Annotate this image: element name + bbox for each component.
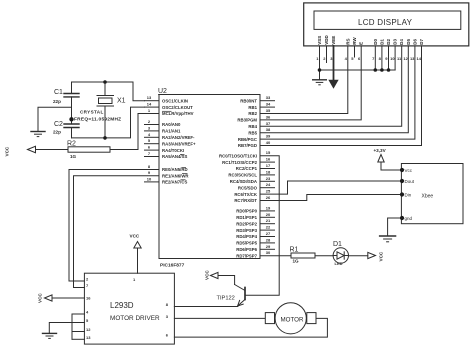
wire VCC to L293D pin16 bbox=[52, 297, 84, 299]
svg-text:13: 13 bbox=[147, 95, 152, 100]
PIC right pin names bbox=[219, 98, 258, 258]
svg-text:MCLR/Vpp/THV: MCLR/Vpp/THV bbox=[162, 111, 194, 116]
svg-text:40: 40 bbox=[266, 140, 271, 145]
transistor Q1 TIP122 collector path bbox=[218, 276, 235, 285]
svg-text:RB2: RB2 bbox=[248, 111, 257, 116]
U2 right pin numbers bbox=[266, 95, 271, 255]
power VCC arrow (LED) bbox=[368, 252, 376, 258]
L293D pin 12 stub bbox=[72, 331, 84, 333]
LCD VSS stub bbox=[319, 46, 321, 80]
svg-text:16: 16 bbox=[86, 296, 91, 301]
wire RE0 to L293D IN1 bbox=[69, 170, 159, 282]
svg-text:RB4: RB4 bbox=[248, 124, 257, 129]
svg-text:15: 15 bbox=[266, 150, 271, 155]
L293D pin numbers bbox=[86, 277, 169, 340]
svg-text:RA5/AN4/SS: RA5/AN4/SS bbox=[162, 154, 187, 159]
wire emitter to L293D pin8 bbox=[174, 306, 237, 308]
wire crystal top lead bbox=[104, 82, 106, 96]
wire RC7 to Xbee Din bbox=[260, 195, 401, 201]
svg-text:RC3/SCK/SCL: RC3/SCK/SCL bbox=[228, 173, 257, 178]
svg-text:10: 10 bbox=[147, 176, 152, 181]
svg-text:38: 38 bbox=[266, 127, 271, 132]
wire L293D pin6 to motor loop bbox=[174, 318, 327, 337]
crystal X1 bottom plate bbox=[97, 105, 114, 107]
wire C1 top lead bbox=[71, 82, 73, 94]
svg-text:D2: D2 bbox=[386, 39, 391, 45]
svg-text:RS: RS bbox=[345, 39, 350, 45]
svg-text:18: 18 bbox=[266, 169, 271, 174]
svg-text:RA1/AN1: RA1/AN1 bbox=[162, 129, 181, 134]
pin 5 stub RA3 bbox=[145, 143, 160, 145]
svg-text:VCC: VCC bbox=[38, 293, 43, 303]
svg-text:D7: D7 bbox=[419, 39, 424, 45]
wire RC6 to Xbee Dout bbox=[260, 181, 401, 194]
pin 19 stub RD0 bbox=[260, 210, 275, 212]
Xbee pin dot Dout bbox=[400, 179, 404, 183]
svg-text:30: 30 bbox=[266, 250, 271, 255]
wire C2 bottom lead bbox=[71, 128, 73, 138]
LCD display inner box bbox=[314, 11, 461, 29]
svg-text:RA2/AN2/VREF-: RA2/AN2/VREF- bbox=[162, 135, 195, 140]
svg-text:10: 10 bbox=[390, 56, 395, 61]
node caps mid bbox=[69, 117, 73, 121]
svg-text:D5: D5 bbox=[406, 39, 411, 45]
svg-text:RD0/PSP0: RD0/PSP0 bbox=[236, 209, 257, 214]
svg-text:RC6/TX/CK: RC6/TX/CK bbox=[234, 192, 258, 197]
svg-text:OSC2/CLKOUT: OSC2/CLKOUT bbox=[162, 105, 193, 110]
wire C1-C2 link bbox=[71, 97, 73, 124]
power VCC arrow (R2) bbox=[28, 146, 36, 152]
U2 left pin numbers bbox=[147, 95, 152, 181]
wire R2 to MCLR bbox=[110, 114, 145, 150]
svg-text:22p: 22p bbox=[53, 99, 61, 104]
ground (L293D) bbox=[43, 332, 57, 334]
svg-text:RA3/AN3/VREF+: RA3/AN3/VREF+ bbox=[162, 141, 196, 146]
LCD D3 stub bbox=[394, 46, 396, 70]
svg-text:VSS: VSS bbox=[317, 36, 322, 45]
svg-text:RA0/AN0: RA0/AN0 bbox=[162, 122, 181, 127]
svg-text:Dout: Dout bbox=[405, 179, 415, 184]
pin 1 stub bbox=[145, 113, 160, 115]
svg-text:35: 35 bbox=[266, 108, 271, 113]
Xbee module body bbox=[401, 164, 463, 224]
power VCC arrow (L293D pin1) bbox=[134, 242, 141, 249]
svg-text:14: 14 bbox=[147, 102, 152, 107]
pin 22 stub RD3 bbox=[260, 229, 275, 231]
power down arrow (VEE) bbox=[329, 80, 338, 88]
LCD pin numbers bbox=[316, 56, 422, 61]
svg-text:MOTOR: MOTOR bbox=[281, 317, 304, 324]
svg-text:RB5: RB5 bbox=[248, 130, 257, 135]
wire RE1 to L293D IN2 bbox=[74, 176, 160, 288]
svg-text:22: 22 bbox=[266, 225, 271, 230]
svg-text:13: 13 bbox=[410, 56, 415, 61]
wire L293D pin1 VCC bbox=[137, 248, 139, 273]
wire RB2 to LCD RS bbox=[260, 46, 348, 114]
node LCD VSS tie bbox=[318, 68, 322, 72]
microcontroller U2 body bbox=[159, 95, 260, 259]
svg-text:C2: C2 bbox=[54, 121, 63, 128]
crystal X1 box bbox=[99, 98, 113, 104]
svg-text:D6: D6 bbox=[412, 39, 417, 45]
svg-text:22p: 22p bbox=[53, 129, 61, 134]
svg-text:1G: 1G bbox=[293, 259, 300, 264]
transistor Q1 collector diagonal bbox=[235, 285, 245, 291]
transistor Q1 emitter arrowhead bbox=[238, 300, 244, 306]
svg-text:D3: D3 bbox=[393, 39, 398, 45]
pin 24 stub RC5 bbox=[260, 187, 275, 189]
motor right terminal bbox=[307, 313, 316, 324]
pin 21 stub RD2 bbox=[260, 223, 275, 225]
pin 20 stub RD1 bbox=[260, 216, 275, 218]
svg-text:13: 13 bbox=[86, 335, 91, 340]
svg-text:gnd: gnd bbox=[405, 216, 413, 221]
pin 18 stub RC3 bbox=[260, 174, 275, 176]
svg-text:RD1/PSP1: RD1/PSP1 bbox=[236, 215, 257, 220]
resistor R2 body bbox=[68, 147, 110, 152]
L293D ground bus wire bbox=[71, 314, 73, 339]
pin 6 stub RA4 bbox=[145, 149, 160, 151]
Xbee pin dot Din bbox=[400, 192, 404, 196]
LCD D1 stub bbox=[381, 46, 383, 70]
svg-text:21: 21 bbox=[266, 218, 271, 223]
pin 4 stub RA2 bbox=[145, 136, 160, 138]
svg-text:PIC16F877: PIC16F877 bbox=[160, 263, 185, 269]
pin 10 stub RE2 bbox=[145, 181, 160, 183]
svg-text:VEE: VEE bbox=[331, 36, 336, 45]
wire VCC to R2 bbox=[36, 149, 69, 151]
svg-text:RE1/AN6/WR: RE1/AN6/WR bbox=[162, 173, 189, 178]
motor M1 circle bbox=[275, 303, 306, 334]
svg-text:33: 33 bbox=[266, 95, 271, 100]
svg-text:24: 24 bbox=[266, 182, 271, 187]
svg-text:RB1: RB1 bbox=[248, 105, 257, 110]
pin 23 stub RC4 bbox=[260, 180, 275, 182]
svg-text:RC4/SDI/SDA: RC4/SDI/SDA bbox=[230, 179, 257, 184]
wire R1 to LED bbox=[315, 255, 333, 257]
svg-text:RD7/PSP7: RD7/PSP7 bbox=[236, 253, 257, 258]
svg-text:C1: C1 bbox=[54, 89, 63, 96]
svg-text:E: E bbox=[359, 42, 364, 45]
svg-text:RB0/INT: RB0/INT bbox=[240, 98, 257, 103]
pin 3 stub RA1 bbox=[145, 130, 160, 132]
svg-text:Vcc: Vcc bbox=[405, 168, 413, 173]
wire RB7 to LCD D7 bbox=[260, 46, 422, 146]
resistor R1 body bbox=[291, 253, 315, 258]
svg-text:RC2/CCP1: RC2/CCP1 bbox=[236, 166, 258, 171]
pin 7 stub RA5 bbox=[145, 156, 160, 158]
ground (crystal caps) bbox=[31, 131, 45, 133]
LED D1 diode bbox=[337, 252, 344, 259]
svg-text:Din: Din bbox=[405, 193, 412, 198]
svg-text:RD4/PSP4: RD4/PSP4 bbox=[236, 234, 257, 239]
svg-text:12: 12 bbox=[403, 56, 408, 61]
svg-text:VCC: VCC bbox=[130, 234, 140, 239]
wire RB6 to LCD D6 bbox=[260, 46, 415, 139]
svg-text:39: 39 bbox=[266, 134, 271, 139]
svg-text:D0: D0 bbox=[373, 39, 378, 45]
Xbee pin dot Vcc bbox=[400, 168, 404, 172]
svg-text:+3,3V: +3,3V bbox=[374, 148, 387, 153]
wire RB4 to LCD D4 bbox=[260, 46, 402, 126]
PIC left pin names bbox=[162, 98, 196, 184]
L293D pin 5 stub bbox=[72, 322, 84, 324]
svg-text:VCC: VCC bbox=[379, 251, 384, 261]
LCD VEE power line bbox=[333, 46, 335, 80]
svg-text:19: 19 bbox=[266, 205, 271, 210]
Xbee pin dot gnd bbox=[400, 216, 404, 220]
pin 28 stub RD5 bbox=[260, 242, 275, 244]
pin 27 stub RD4 bbox=[260, 236, 275, 238]
svg-text:27: 27 bbox=[266, 231, 271, 236]
node D0 bbox=[374, 68, 378, 72]
svg-text:TIP122: TIP122 bbox=[217, 296, 235, 302]
ground (Xbee) bbox=[380, 235, 396, 237]
svg-text:29: 29 bbox=[266, 244, 271, 249]
svg-text:RE0/AN5/RD: RE0/AN5/RD bbox=[162, 167, 188, 172]
svg-text:RC1/T1OSI/CCP2: RC1/T1OSI/CCP2 bbox=[222, 160, 257, 165]
L293D motor driver body bbox=[84, 273, 174, 344]
node crystal top bbox=[103, 80, 107, 84]
svg-text:R2: R2 bbox=[67, 141, 76, 148]
crystal X1 top plate bbox=[97, 95, 114, 97]
pin-name overlines bbox=[162, 111, 188, 180]
svg-text:CRYSTAL: CRYSTAL bbox=[80, 110, 104, 115]
wire crystal bottom lead bbox=[104, 106, 106, 138]
svg-text:RC5/SDO: RC5/SDO bbox=[238, 185, 258, 190]
svg-text:RC0/T1OSO/T1CKI: RC0/T1OSO/T1CKI bbox=[219, 153, 257, 158]
pin 29 stub RD6 bbox=[260, 248, 275, 250]
svg-text:25: 25 bbox=[266, 189, 271, 194]
svg-text:X1: X1 bbox=[117, 98, 126, 105]
svg-text:D4: D4 bbox=[399, 39, 404, 45]
svg-text:36: 36 bbox=[266, 114, 271, 119]
capacitor C1 plates bbox=[64, 93, 79, 95]
pin 2 stub RA0 bbox=[145, 124, 160, 126]
wire RD7 to R1 bbox=[260, 255, 291, 257]
ground (LCD VSS) bbox=[313, 79, 327, 81]
svg-text:RD3/PSP3: RD3/PSP3 bbox=[236, 228, 257, 233]
svg-text:Xbee: Xbee bbox=[422, 194, 434, 200]
transistor Q1 emitter diagonal bbox=[238, 300, 245, 306]
svg-text:LCD DISPLAY: LCD DISPLAY bbox=[358, 18, 413, 27]
svg-text:RB3/PGM: RB3/PGM bbox=[237, 118, 257, 123]
svg-text:12: 12 bbox=[86, 327, 91, 332]
power +3.3V arrow bbox=[378, 155, 384, 163]
svg-text:23: 23 bbox=[266, 176, 271, 181]
svg-text:D1: D1 bbox=[379, 39, 384, 45]
LCD display outer box bbox=[304, 3, 469, 46]
transistor Q1 base bar bbox=[244, 288, 246, 300]
svg-text:26: 26 bbox=[266, 195, 271, 200]
svg-text:LED: LED bbox=[335, 261, 343, 266]
LCD VDD stub bbox=[326, 46, 328, 63]
svg-text:VDD: VDD bbox=[324, 35, 329, 45]
node crystal bottom bbox=[103, 136, 107, 140]
svg-text:VCC: VCC bbox=[5, 146, 10, 156]
L293D pin 4 stub bbox=[72, 313, 84, 315]
wire RB3 to LCD E bbox=[260, 46, 361, 120]
wire LED to VCC bbox=[348, 255, 367, 257]
power VCC arrow (L293D pin16) bbox=[45, 295, 53, 301]
svg-text:RC7/RX/DT: RC7/RX/DT bbox=[234, 198, 257, 203]
wire RC0 to TIP122 base bbox=[245, 156, 279, 296]
node D1 bbox=[380, 68, 384, 72]
svg-text:34: 34 bbox=[266, 102, 271, 107]
LCD RW stub bbox=[354, 46, 356, 57]
svg-text:RW: RW bbox=[352, 37, 357, 45]
svg-text:RD6/PSP6: RD6/PSP6 bbox=[236, 247, 257, 252]
svg-text:D1: D1 bbox=[333, 241, 342, 248]
svg-text:14: 14 bbox=[417, 56, 422, 61]
capacitor C2 plates bbox=[64, 123, 79, 125]
svg-text:17: 17 bbox=[266, 163, 271, 168]
wire OSC1 top loop bbox=[72, 82, 145, 101]
wire bus to ground bbox=[49, 323, 72, 334]
wire +3.3V to Xbee Vcc bbox=[381, 162, 401, 170]
LCD pin labels rotated bbox=[317, 35, 424, 45]
L293D pin 13 stub bbox=[72, 338, 84, 340]
svg-text:L293D: L293D bbox=[110, 301, 134, 310]
svg-text:RB6/PGC: RB6/PGC bbox=[238, 137, 257, 142]
wire RB5 to LCD D5 bbox=[260, 46, 408, 133]
motor left terminal bbox=[265, 313, 274, 324]
wire caps to ground bbox=[38, 107, 72, 131]
svg-text:RA4/T0CKI: RA4/T0CKI bbox=[162, 148, 184, 153]
svg-text:16: 16 bbox=[266, 157, 271, 162]
svg-text:37: 37 bbox=[266, 121, 271, 126]
svg-text:FREQ=11.0592MHZ: FREQ=11.0592MHZ bbox=[74, 117, 121, 123]
svg-text:U2: U2 bbox=[158, 88, 167, 95]
wire Xbee gnd bbox=[388, 218, 402, 236]
svg-text:RD5/PSP5: RD5/PSP5 bbox=[236, 241, 257, 246]
svg-text:OSC1/CLKIN: OSC1/CLKIN bbox=[162, 98, 188, 103]
svg-text:VCC: VCC bbox=[205, 270, 210, 280]
pin 13 stub bbox=[145, 100, 160, 102]
LCD D0 stub bbox=[374, 46, 376, 70]
pin 17 stub RC2 bbox=[260, 168, 275, 170]
power VCC arrow (TIP122) bbox=[211, 272, 219, 278]
wire VSS tie to D0-D3 bbox=[320, 69, 396, 71]
LCD D2 stub bbox=[388, 46, 390, 70]
svg-text:RD2/PSP2: RD2/PSP2 bbox=[236, 221, 257, 226]
pin 16 stub RC1 bbox=[260, 161, 275, 163]
wire OSC2 bottom loop bbox=[72, 107, 145, 138]
wire L293D pin3 to motor bbox=[174, 317, 265, 319]
svg-text:28: 28 bbox=[266, 237, 271, 242]
node D2 bbox=[387, 68, 391, 72]
pin 34 stub RB1 bbox=[260, 106, 275, 108]
svg-text:20: 20 bbox=[266, 212, 271, 217]
pin 14 stub bbox=[145, 106, 160, 108]
svg-text:RB7/PGD: RB7/PGD bbox=[238, 143, 257, 148]
LED D1 circle bbox=[333, 248, 348, 263]
svg-text:1G: 1G bbox=[70, 154, 77, 159]
svg-text:R1: R1 bbox=[290, 246, 299, 253]
svg-text:MOTOR DRIVER: MOTOR DRIVER bbox=[110, 315, 160, 322]
pin 33 stub RB0 bbox=[260, 100, 275, 102]
svg-text:RE2/AN7/CS: RE2/AN7/CS bbox=[162, 180, 187, 185]
